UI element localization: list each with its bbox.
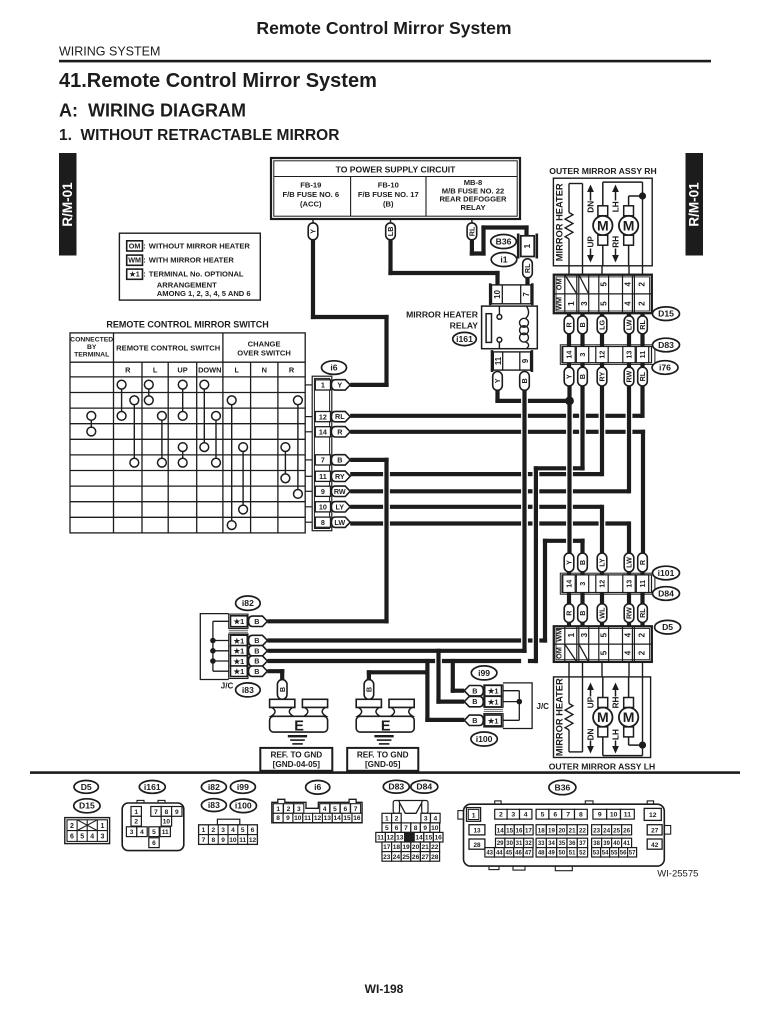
svg-text:REF. TO GND: REF. TO GND: [357, 750, 409, 759]
connector i6 body: [312, 376, 332, 531]
i99 group frame: [484, 685, 503, 707]
svg-text:36: 36: [569, 841, 576, 847]
svg-text:3: 3: [221, 827, 225, 834]
wire B branch to i99 row1: [451, 659, 455, 693]
svg-text:32: 32: [525, 841, 532, 847]
svg-text:5: 5: [600, 301, 609, 306]
i83 terminal *1 row 4: [231, 666, 248, 677]
svg-text:2: 2: [637, 632, 646, 637]
svg-text:L: L: [153, 366, 158, 375]
svg-text:14: 14: [497, 827, 504, 834]
wire RW i6-9: [350, 489, 383, 493]
svg-text:9: 9: [175, 809, 179, 816]
svg-text:6: 6: [152, 840, 156, 847]
stub B: [580, 593, 584, 605]
wire color RY at i6 pin 11: [331, 471, 350, 481]
svg-text:52: 52: [579, 850, 586, 856]
svg-text:i99: i99: [478, 668, 490, 678]
svg-text:13: 13: [396, 835, 404, 842]
wire Y RH to LH mirror common: [567, 386, 571, 554]
svg-text:TERMINAL: TERMINAL: [74, 352, 109, 359]
svg-text:MIRROR HEATER: MIRROR HEATER: [555, 678, 565, 756]
svg-text:11: 11: [239, 837, 246, 844]
switch contact circles: [87, 380, 302, 529]
svg-text:16: 16: [353, 815, 361, 822]
separator hatch: [484, 708, 503, 710]
svg-text:4: 4: [524, 812, 528, 819]
stub RL: [640, 334, 644, 348]
svg-text:WM: WM: [128, 256, 141, 265]
svg-text:30: 30: [506, 841, 513, 847]
svg-text:LW: LW: [625, 557, 634, 568]
pinout label D83: [383, 780, 409, 793]
stub B: [580, 334, 584, 348]
wire color B i99 row 2: [464, 696, 483, 706]
wire color B at E1: [277, 680, 287, 700]
svg-text:27: 27: [651, 828, 659, 835]
wire color Y relay: [493, 372, 503, 391]
svg-text:20: 20: [558, 827, 565, 834]
wire RY i6-11: [350, 472, 383, 476]
svg-text:8: 8: [414, 825, 418, 832]
stub Y: [567, 572, 571, 576]
svg-text:8: 8: [211, 837, 215, 844]
svg-text:RW: RW: [625, 370, 634, 382]
svg-text:5: 5: [152, 829, 156, 836]
svg-text:Y: Y: [565, 374, 574, 379]
connector label i101: [653, 566, 680, 580]
svg-text:RY: RY: [598, 372, 607, 382]
wire lead RL: [471, 219, 473, 224]
svg-text:18: 18: [393, 844, 401, 851]
wire RL step3: [481, 225, 528, 229]
i99 terminal *1 row 1: [485, 685, 502, 696]
svg-text:5: 5: [600, 632, 609, 637]
wire color Y at i6 pin 1: [331, 380, 350, 390]
svg-text:B: B: [520, 378, 529, 383]
svg-text:R/M-01: R/M-01: [687, 182, 702, 227]
svg-text:4: 4: [231, 827, 235, 834]
i6 pin 10 stub: [305, 506, 312, 508]
wire color RW D84: [624, 604, 634, 623]
motor M horizontal LH: [624, 698, 634, 708]
i83 terminal *1 row 1: [231, 635, 248, 646]
svg-text:14: 14: [334, 815, 342, 822]
svg-text:24: 24: [603, 827, 610, 834]
svg-text:★1: ★1: [233, 647, 245, 656]
stub LY: [600, 572, 604, 576]
stub B: [580, 572, 584, 576]
svg-text:5: 5: [385, 825, 389, 832]
svg-text:44: 44: [496, 850, 503, 856]
svg-text:[GND-05]: [GND-05]: [365, 760, 401, 769]
svg-text:6: 6: [343, 806, 347, 813]
svg-text:OUTER MIRROR ASSY RH: OUTER MIRROR ASSY RH: [549, 166, 656, 176]
svg-text:★1: ★1: [487, 687, 499, 696]
joint connector junction: [210, 648, 216, 654]
svg-text:R: R: [565, 322, 574, 328]
right sidebar tab R/M-01: [686, 153, 704, 256]
stub RL: [640, 313, 644, 316]
svg-text:10: 10: [294, 815, 302, 822]
stub B: [580, 363, 584, 369]
connector label i76: [652, 361, 678, 375]
stub B: [580, 623, 584, 628]
wire color RY i76: [597, 367, 607, 386]
wire color WL D84: [597, 604, 607, 623]
ref to gnd box 1: [260, 748, 332, 771]
svg-text:i101: i101: [658, 568, 675, 578]
svg-text:★1: ★1: [233, 657, 245, 666]
svg-text:2: 2: [70, 823, 74, 830]
pinout label D84: [411, 780, 438, 793]
svg-text:40: 40: [613, 841, 620, 847]
i6 pin 1 stub: [305, 384, 312, 386]
left sidebar tab R/M-01: [59, 153, 77, 256]
svg-text:RELAY: RELAY: [450, 321, 479, 331]
outer mirror assy LH box: [554, 677, 651, 758]
svg-text:D84: D84: [416, 782, 432, 792]
svg-text:R: R: [125, 366, 131, 375]
stub RW: [627, 363, 631, 369]
wire RL step2: [481, 225, 485, 255]
wire color R at i6 pin 14: [331, 427, 350, 437]
stub RL: [640, 363, 644, 369]
wire LW drop to i101: [627, 521, 631, 553]
legend WM: [127, 255, 143, 265]
svg-text:RL: RL: [638, 371, 647, 381]
svg-text:57: 57: [629, 850, 636, 856]
wire color B relay: [520, 372, 530, 391]
svg-text:OM: OM: [554, 278, 563, 290]
svg-text:41: 41: [623, 841, 630, 847]
svg-text:R: R: [289, 366, 295, 375]
svg-text:12: 12: [598, 351, 607, 359]
svg-text:F/B FUSE NO. 17: F/B FUSE NO. 17: [358, 190, 419, 199]
svg-text:LH: LH: [611, 729, 620, 740]
svg-text:LG: LG: [598, 320, 607, 330]
pinout label D5: [74, 781, 98, 794]
svg-text:3: 3: [511, 812, 515, 819]
wire RY rise to i76: [600, 386, 604, 476]
stub RW: [627, 593, 631, 605]
wire color RW at i6 pin 9: [331, 486, 350, 496]
wire B into i101: [580, 539, 584, 554]
wire LY drop to i101: [600, 505, 604, 554]
svg-text:51: 51: [569, 850, 576, 856]
stub R: [567, 593, 571, 605]
arrow RH LH: [615, 689, 617, 697]
i6 pin 12 stub: [305, 416, 312, 418]
svg-text:RH: RH: [611, 236, 620, 248]
stub Y: [567, 363, 571, 369]
wire color B at E2: [364, 680, 374, 700]
svg-text:25: 25: [613, 827, 620, 834]
svg-text:11: 11: [319, 472, 327, 481]
svg-text:13: 13: [473, 828, 481, 835]
svg-text:B: B: [365, 687, 374, 692]
svg-text:OVER SWITCH: OVER SWITCH: [237, 349, 291, 358]
stub B: [580, 313, 584, 316]
svg-text:D83: D83: [658, 340, 674, 350]
svg-text:4: 4: [624, 282, 633, 287]
svg-text:48: 48: [538, 850, 545, 856]
wire relay Y to node: [495, 399, 521, 403]
wire lead ACC: [312, 219, 314, 224]
svg-text:B: B: [472, 716, 477, 725]
svg-text:AMONG 1, 2, 3, 4, 5 AND 6: AMONG 1, 2, 3, 4, 5 AND 6: [157, 289, 251, 298]
pinout label i82: [201, 781, 226, 794]
svg-text:50: 50: [559, 850, 566, 856]
wire color R D84: [564, 604, 574, 623]
svg-text:2: 2: [499, 812, 503, 819]
svg-text:★1: ★1: [233, 636, 245, 645]
svg-text:8: 8: [276, 815, 280, 822]
svg-text:i1: i1: [500, 254, 507, 264]
svg-text:16: 16: [435, 835, 443, 842]
svg-text:R: R: [565, 610, 574, 616]
svg-text:3: 3: [578, 582, 587, 586]
svg-text:3: 3: [130, 829, 134, 836]
svg-text:11: 11: [494, 356, 503, 365]
svg-text:UP: UP: [586, 236, 595, 248]
svg-text:5: 5: [241, 827, 245, 834]
connector label i100: [471, 732, 497, 746]
svg-text:i161: i161: [144, 782, 161, 792]
svg-text:B: B: [278, 687, 287, 692]
svg-text:25: 25: [402, 854, 410, 861]
svg-text:6: 6: [70, 834, 74, 841]
svg-text::: :: [143, 256, 146, 265]
wire B from i76: [580, 386, 584, 470]
svg-text:★1: ★1: [487, 697, 499, 706]
pinout label i6: [306, 781, 330, 795]
svg-text:LH: LH: [611, 201, 620, 212]
svg-text:31: 31: [516, 841, 523, 847]
connector i101/D84: [562, 575, 652, 593]
wire RL step1: [470, 251, 486, 255]
svg-text:8: 8: [321, 518, 325, 527]
svg-text:1: 1: [276, 806, 280, 813]
svg-text:2: 2: [134, 819, 138, 826]
svg-text:★1: ★1: [487, 716, 499, 725]
wire R drop to i101: [641, 430, 645, 554]
svg-text:12: 12: [249, 837, 257, 844]
svg-text:9: 9: [286, 815, 290, 822]
svg-text:i6: i6: [330, 363, 337, 373]
wire R i6-14 to LH mirror: [350, 430, 521, 434]
svg-text:i161: i161: [456, 334, 473, 344]
svg-text:3: 3: [424, 816, 428, 823]
svg-text:LY: LY: [336, 502, 345, 511]
connector label i83: [236, 683, 261, 697]
svg-text:i82: i82: [242, 598, 254, 608]
ref to gnd box 2: [347, 748, 418, 771]
svg-text:OM: OM: [554, 647, 563, 659]
stub WL: [600, 623, 604, 628]
svg-text:3: 3: [580, 632, 589, 637]
connector label B36: [491, 235, 517, 249]
svg-text:12: 12: [387, 835, 395, 842]
svg-text:B: B: [578, 560, 587, 565]
mirror heater resistor LH: [568, 677, 570, 704]
svg-text:12: 12: [598, 580, 607, 588]
svg-text:23: 23: [383, 854, 391, 861]
i82 terminal *1: [231, 616, 248, 627]
pinout label i83: [201, 799, 226, 812]
pinout label i161: [139, 781, 165, 794]
stub RL: [640, 593, 644, 605]
svg-text:i6: i6: [314, 782, 321, 792]
svg-text:5: 5: [80, 834, 84, 841]
svg-text:39: 39: [603, 841, 610, 847]
svg-text:21: 21: [569, 827, 576, 834]
pinout connector i161: [137, 800, 144, 804]
switch table grid: [70, 333, 305, 533]
junction LH common: [639, 742, 646, 749]
wire B jog: [534, 466, 566, 470]
svg-text:Y: Y: [309, 229, 318, 234]
relay contact: [486, 314, 491, 343]
wire color B i83 row 2: [249, 646, 268, 656]
junction RH common: [639, 192, 646, 199]
stub RY: [600, 363, 604, 369]
svg-text:1: 1: [202, 827, 206, 834]
separator hatch: [229, 629, 248, 631]
svg-text:F/B FUSE NO. 6: F/B FUSE NO. 6: [283, 190, 340, 199]
svg-text:5: 5: [600, 650, 609, 655]
svg-text:RELAY: RELAY: [460, 203, 485, 212]
svg-text:D83: D83: [388, 782, 404, 792]
svg-text:LY: LY: [598, 558, 607, 567]
svg-text:D5: D5: [81, 782, 92, 792]
wire color R i101: [638, 553, 648, 572]
wire color LW RH: [624, 316, 634, 334]
svg-text:REMOTE CONTROL SWITCH: REMOTE CONTROL SWITCH: [116, 344, 220, 353]
connector label D5: [655, 620, 681, 634]
svg-text:4: 4: [323, 806, 327, 813]
wire color RL below B36: [523, 259, 533, 278]
svg-text:CHANGE: CHANGE: [248, 340, 281, 349]
pinout label i100: [230, 799, 256, 813]
i6 pin 7 stub: [305, 459, 312, 461]
svg-text::: :: [143, 270, 146, 279]
svg-text:(B): (B): [383, 200, 394, 209]
svg-text:27: 27: [422, 854, 430, 861]
svg-text:7: 7: [202, 837, 206, 844]
svg-text:LB: LB: [386, 227, 395, 237]
wire color RL D84: [638, 604, 648, 623]
svg-text:53: 53: [593, 850, 600, 856]
header rule: [59, 60, 711, 63]
connector label i161: [453, 332, 477, 345]
svg-text:E: E: [381, 718, 391, 734]
wire LW i6-8: [350, 521, 383, 525]
svg-text:WM: WM: [554, 629, 563, 642]
wire color LY at i6 pin 10: [331, 502, 350, 512]
svg-text:4: 4: [624, 632, 633, 637]
stub RL: [640, 623, 644, 628]
i6 pin 9 stub: [305, 490, 312, 492]
svg-text:CONNECTED: CONNECTED: [70, 337, 113, 344]
svg-text:7: 7: [154, 809, 158, 816]
svg-text:9: 9: [321, 487, 325, 496]
svg-text:RW: RW: [625, 607, 634, 619]
arrow DN LH: [590, 741, 592, 748]
wire color B i99 row 1: [464, 686, 483, 696]
stub R: [567, 313, 571, 316]
wire Y into i6 pin1: [350, 383, 388, 387]
i100 row frame: [484, 714, 503, 727]
wire B LH jog: [543, 539, 566, 543]
svg-text:23: 23: [593, 827, 600, 834]
wire LB into relay pin10: [495, 271, 499, 286]
svg-text:10: 10: [610, 812, 618, 819]
wire color B RH: [578, 316, 588, 334]
wire color R RH: [564, 316, 574, 334]
svg-text:B: B: [578, 322, 587, 327]
svg-text:RH: RH: [611, 697, 620, 709]
junction node Y: [565, 397, 574, 406]
svg-text:5: 5: [541, 812, 545, 819]
svg-text:7: 7: [321, 456, 325, 465]
svg-text:7: 7: [404, 825, 408, 832]
svg-text:i83: i83: [242, 685, 254, 695]
svg-text:i99: i99: [237, 782, 249, 792]
wire color B i83 row 4: [249, 666, 268, 676]
svg-text:Remote Control Mirror System: Remote Control Mirror System: [256, 18, 511, 38]
svg-text:1: 1: [523, 243, 532, 248]
svg-text:1: 1: [321, 381, 325, 390]
legend OM: [127, 241, 143, 251]
connector D83/i76: [562, 347, 652, 363]
svg-text:45: 45: [506, 850, 513, 856]
svg-text:1: 1: [134, 809, 138, 816]
wire B i83 row3 to RH: [267, 659, 435, 663]
wire B i83 row4 to ground: [267, 669, 284, 673]
svg-text:DOWN: DOWN: [198, 366, 221, 375]
svg-text:3: 3: [297, 806, 301, 813]
svg-text:OM: OM: [129, 241, 141, 250]
svg-text:12: 12: [319, 412, 327, 421]
wire color Y: [308, 223, 318, 240]
svg-text:J/C: J/C: [537, 702, 550, 711]
svg-text:4: 4: [90, 834, 94, 841]
connector block D15 RH mirror: [554, 275, 652, 314]
svg-text:46: 46: [515, 850, 522, 856]
svg-text:WL: WL: [598, 607, 607, 619]
svg-text:B: B: [578, 610, 587, 615]
svg-text:1: 1: [100, 823, 104, 830]
i83 terminal *1 row 2: [231, 646, 248, 657]
arrow RH RH: [615, 249, 617, 257]
svg-text:REMOTE CONTROL MIRROR SWITCH: REMOTE CONTROL MIRROR SWITCH: [106, 320, 268, 330]
svg-text:M: M: [623, 709, 635, 725]
i82 row frame: [229, 614, 248, 628]
connector label i1: [491, 253, 517, 267]
svg-text:6: 6: [395, 825, 399, 832]
pinout connector i82/i83: [217, 819, 239, 825]
joint connector junction: [210, 658, 216, 664]
wire B branch to i100/E2: [425, 659, 429, 722]
pinout connector D83/D84: [398, 801, 423, 814]
svg-text:R: R: [337, 427, 343, 436]
wire lead B: [390, 219, 392, 224]
svg-text:BY: BY: [87, 344, 97, 351]
svg-text:UP: UP: [177, 366, 187, 375]
ground E1: [270, 699, 295, 707]
svg-text:4: 4: [140, 829, 144, 836]
